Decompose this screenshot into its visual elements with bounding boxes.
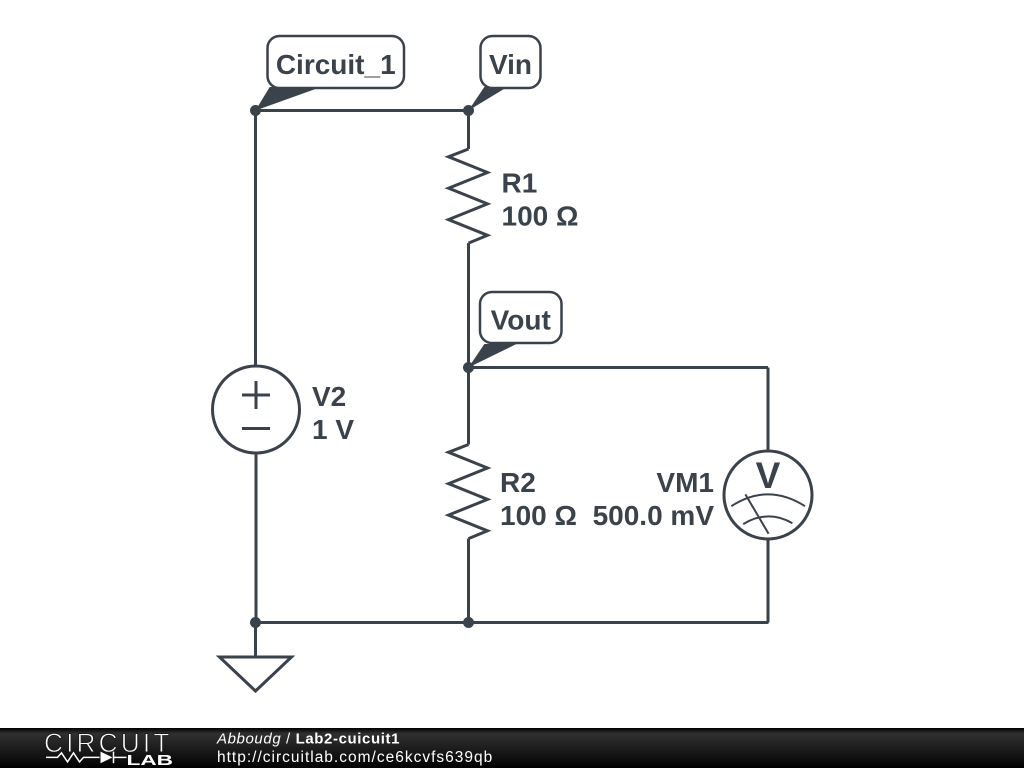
svg-text:R2: R2 — [500, 467, 536, 498]
svg-text:1 V: 1 V — [312, 414, 354, 445]
svg-text:R1: R1 — [502, 168, 538, 199]
svg-text:100 Ω: 100 Ω — [502, 201, 579, 232]
svg-text:VM1: VM1 — [656, 467, 714, 498]
svg-text:V2: V2 — [312, 381, 346, 412]
svg-text:100 Ω: 100 Ω — [500, 500, 577, 531]
svg-text:Abboudg / Lab2-cuicuit1: Abboudg / Lab2-cuicuit1 — [216, 731, 400, 748]
svg-text:Vin: Vin — [489, 49, 532, 80]
svg-text:http://circuitlab.com/ce6kcvfs: http://circuitlab.com/ce6kcvfs639qb — [217, 749, 493, 766]
svg-text:V: V — [756, 455, 781, 496]
svg-text:Vout: Vout — [491, 305, 551, 336]
svg-text:LAB: LAB — [127, 752, 174, 768]
svg-text:500.0 mV: 500.0 mV — [593, 500, 715, 531]
svg-text:Circuit_1: Circuit_1 — [276, 49, 396, 80]
